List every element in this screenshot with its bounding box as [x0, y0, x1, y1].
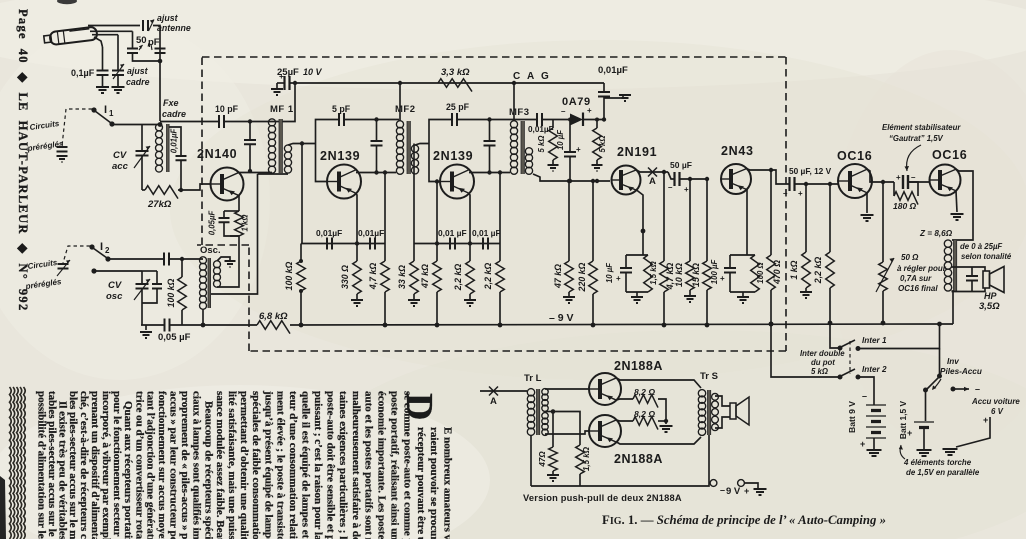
wire osc secondary bottom feedback	[217, 236, 239, 287]
resistor 470ohm	[769, 168, 773, 172]
svg-text:“Gautrat” 1,5V: “Gautrat” 1,5V	[889, 134, 944, 143]
svg-text:25µF: 25µF	[277, 67, 299, 78]
wire terminal to ground	[744, 483, 758, 488]
wire 2N139 collector to MF2	[356, 172, 396, 174]
electrolytic 100uF emitter bypass	[730, 254, 755, 256]
trimmer 50pF left	[132, 31, 134, 48]
svg-text:0,1µF: 0,1µF	[71, 68, 95, 78]
wire MF1 supply drop	[273, 83, 295, 122]
wire osc secondary top to ground	[217, 257, 230, 261]
resistor 47k bias	[568, 181, 570, 261]
transistor 2N140	[211, 168, 244, 201]
ground	[660, 426, 673, 432]
svg-text:malheureusement satisfaire à d: malheureusement satisfaire à des cer	[350, 391, 362, 539]
terminal circles 9V	[710, 480, 717, 487]
ground	[547, 475, 559, 481]
svg-text:OC16: OC16	[932, 148, 967, 162]
svg-text:+: +	[616, 274, 621, 283]
svg-text:trice ou d’un convertisseur ro: trice ou d’un convertisseur rotatif. Il	[133, 391, 145, 539]
resistor 2,2k oc	[828, 182, 832, 186]
svg-text:E nombreux amateurs voudraient: E nombreux amateurs voudraient pou	[442, 427, 454, 539]
ground	[592, 165, 603, 171]
svg-text:Beaucoup de récepteurs spéciau: Beaucoup de récepteurs spéciaux	[202, 401, 214, 539]
transistor 2N188A bottom	[589, 415, 621, 447]
wire to 2N140 base	[178, 184, 211, 190]
svg-text:économie importante. Les poste: économie importante. Les postes auto	[376, 391, 388, 539]
svg-text:2N139: 2N139	[433, 149, 473, 163]
svg-text:50 Ω: 50 Ω	[901, 253, 919, 262]
svg-text:ciaux à lampes sont qualifiés: ciaux à lampes sont qualifiés impro	[191, 391, 203, 539]
svg-text:33 kΩ: 33 kΩ	[397, 265, 407, 289]
svg-text:100 kΩ: 100 kΩ	[284, 261, 294, 290]
loop antenna coil (cadre)	[156, 124, 163, 131]
wire TrS bottom to terminal	[708, 435, 710, 483]
resistor 8,2 bottom	[617, 420, 634, 421]
svg-text:Versіon push-pull de deux: Versіon push-pull de deux 2N188A	[523, 493, 682, 503]
svg-text:–: –	[668, 183, 673, 192]
wire MF3 secondary bottom to 2N191 base	[533, 174, 610, 181]
svg-text:1 kΩ: 1 kΩ	[241, 215, 250, 232]
wire MF3 top to detector	[513, 120, 515, 122]
wire top rail	[290, 82, 605, 84]
ground	[271, 89, 283, 95]
ground	[563, 297, 575, 303]
svg-text:du pot: du pot	[811, 358, 835, 367]
svg-text:Tr L: Tr L	[524, 373, 542, 384]
wire OC16 emitter to ground	[866, 193, 868, 213]
svg-text:+: +	[860, 439, 865, 449]
svg-text:de 1,5V en parallèle: de 1,5V en parallèle	[906, 468, 980, 477]
svg-text:–: –	[862, 391, 867, 401]
svg-text:470 Ω: 470 Ω	[772, 260, 782, 285]
oscillator transformer	[200, 257, 207, 264]
svg-text:permettant d’obtenir une quali: permettant d’obtenir une qualité satis	[238, 391, 250, 539]
wire osc primary bottom to rail	[202, 309, 204, 325]
ground	[619, 95, 631, 101]
svg-text:+: +	[744, 486, 749, 496]
resistor 1,5k bias pushpull	[553, 412, 580, 446]
capacitor 0,01uF a2	[370, 238, 375, 250]
resistor 100ohm emitter	[751, 255, 760, 292]
electrolytic 10uF emitter bypass	[626, 254, 648, 256]
svg-text:– 9 V: – 9 V	[549, 312, 574, 324]
svg-text:A: A	[490, 396, 497, 407]
svg-text:selon tonalité: selon tonalité	[961, 252, 1012, 261]
svg-text:accus » par leur constructeur: accus » par leur constructeur pour le	[167, 391, 179, 539]
svg-text:I: I	[100, 241, 103, 253]
svg-text:5 kΩ: 5 kΩ	[598, 136, 607, 153]
wire TrS to speaker	[715, 396, 730, 406]
svg-text:quelle il est équipé de lampes: quelle il est équipé de lampes et d’un	[299, 391, 311, 539]
transistor 2N139 first	[327, 165, 361, 199]
svg-text:I: I	[104, 104, 107, 116]
series capacitor on osc line	[164, 253, 169, 266]
preset trimmer 2	[58, 264, 69, 269]
wire 2N43 emitter	[746, 190, 748, 256]
wire pushpull rail	[531, 483, 709, 486]
resistor 1,5k emitter	[644, 255, 653, 292]
svg-text:Inter 2: Inter 2	[862, 365, 887, 374]
dashed switch linkage	[849, 341, 851, 374]
ground	[943, 449, 958, 455]
svg-text:2N188A: 2N188A	[614, 452, 663, 466]
svg-text:4 éléments torche: 4 éléments torche	[903, 458, 972, 467]
svg-text:teur d’une consommation relati: teur d’une consommation relativement	[287, 391, 299, 539]
switch I1	[91, 107, 96, 112]
electrolytic 50uF coupling	[668, 172, 674, 179]
resistor 6,8k on rail	[257, 321, 290, 334]
switch Inter 1	[838, 346, 843, 351]
svg-text:pF: pF	[148, 37, 160, 48]
svg-text:ment élevée ; le poste à trans: ment élevée ; le poste à transistors éta…	[275, 391, 287, 539]
svg-text:27kΩ: 27kΩ	[147, 199, 172, 210]
electrolytic 25uF	[277, 82, 284, 84]
svg-text:osc: osc	[106, 291, 123, 302]
svg-text:8,2 Ω: 8,2 Ω	[634, 387, 655, 397]
svg-text:+: +	[983, 415, 988, 425]
preset trimmer	[57, 147, 68, 152]
svg-text:15 kΩ: 15 kΩ	[691, 263, 701, 287]
svg-text:de 0 à 25µF: de 0 à 25µF	[960, 242, 1002, 251]
wire accu to ground	[956, 417, 990, 447]
svg-text:180 Ω: 180 Ω	[893, 201, 917, 211]
svg-text:MF2: MF2	[395, 104, 416, 115]
svg-text:spéciales de faible consommati: spéciales de faible consommation per	[250, 391, 262, 539]
capacitor shunt second IF	[487, 117, 491, 121]
resistor 330ohm	[355, 241, 359, 245]
svg-text:10 pF: 10 pF	[215, 104, 239, 114]
svg-text:Z = 8,6Ω: Z = 8,6Ω	[919, 229, 953, 238]
svg-text:2N139: 2N139	[320, 149, 360, 163]
wire emitter network	[238, 196, 240, 212]
wire cadre bottom node	[142, 189, 145, 191]
switch I2	[89, 244, 94, 249]
transistor 2N191	[612, 166, 641, 195]
wire collector top to TrS	[617, 378, 702, 388]
resistor 2,2k b2	[499, 173, 501, 244]
svg-text:à régler pour: à régler pour	[897, 264, 947, 273]
svg-text:sance modulée assez faible. Be: sance modulée assez faible. Beaucoup	[214, 391, 226, 539]
wire collector node	[248, 119, 252, 123]
svg-text:0,01 µF: 0,01 µF	[472, 228, 501, 238]
transistor 2N188A top	[589, 373, 621, 405]
svg-text:acc: acc	[112, 161, 129, 172]
svg-text:Elément stabilisateur: Elément stabilisateur	[882, 123, 961, 132]
node X A input pushpull	[480, 390, 527, 392]
svg-text:2N191: 2N191	[617, 145, 657, 159]
trimmer ajust antenne	[143, 20, 148, 31]
svg-text:0,01µF: 0,01µF	[316, 228, 342, 238]
svg-text:47 kΩ: 47 kΩ	[420, 264, 430, 289]
svg-text:10 µF: 10 µF	[605, 263, 614, 283]
svg-text:Inter 1: Inter 1	[862, 336, 887, 345]
capacitor 10pF	[160, 121, 218, 123]
svg-text:1: 1	[109, 109, 114, 118]
transistor OC16 second	[930, 165, 961, 196]
svg-text:proprement de « piles-accus »: proprement de « piles-accus » par leur	[179, 391, 191, 539]
svg-text:lité satisfaisante, mais une p: lité satisfaisante, mais une puissance	[226, 391, 238, 539]
svg-text:0,01 µF: 0,01 µF	[438, 228, 467, 238]
svg-text:tant l’adjonction d’une généra: tant l’adjonction d’une génératrice ou	[145, 391, 157, 539]
ground	[737, 297, 749, 303]
capacitor shunt first IF	[374, 117, 378, 121]
wire rail to inter1	[830, 323, 838, 348]
ground	[684, 296, 696, 302]
svg-text:Inv: Inv	[947, 357, 959, 366]
svg-text:1,5 kΩ: 1,5 kΩ	[649, 261, 658, 284]
resistor 10k bias	[688, 177, 692, 181]
svg-text:0,01µF: 0,01µF	[358, 228, 384, 238]
capacitor 0,01uF b1	[450, 238, 455, 250]
trimmer ajust cadre	[117, 35, 119, 70]
wire speaker bottom	[952, 288, 986, 292]
svg-text:cadre: cadre	[162, 109, 186, 119]
svg-text:jusqu’à présent équipé de lamp: jusqu’à présent équipé de lampes sé	[262, 390, 274, 539]
wire TrL sec center tap	[545, 411, 553, 413]
svg-text:A: A	[649, 176, 656, 187]
wire collector bottom to TrS	[617, 437, 702, 444]
svg-text:possibilité d’alimentation sur: possibilité d’alimentation sur les bat	[35, 391, 47, 539]
resistor 2,2k b	[468, 241, 472, 245]
svg-text:+: +	[576, 145, 581, 154]
resistor 47k stage B	[435, 241, 439, 245]
svg-text:2,2 kΩ: 2,2 kΩ	[483, 263, 493, 291]
trimmer parallel CV osc	[156, 271, 158, 283]
capacitor 0,01uF on cadre tap	[169, 127, 181, 155]
svg-text:–: –	[911, 173, 916, 182]
svg-text:+: +	[720, 274, 725, 283]
svg-text:9 V: 9 V	[726, 486, 741, 497]
output transformer Z=8,6	[944, 240, 951, 247]
ground	[225, 261, 236, 267]
svg-text:+: +	[896, 173, 901, 182]
arrow to stabilizer	[907, 145, 921, 171]
rheostat 50ohm	[881, 180, 885, 184]
svg-text:50 µF, 12 V: 50 µF, 12 V	[789, 166, 832, 176]
ground	[861, 215, 874, 221]
svg-text:MF3: MF3	[509, 107, 530, 118]
svg-text:10 V: 10 V	[303, 67, 323, 77]
accu contact	[951, 387, 956, 392]
wire OC16 collector	[867, 169, 894, 182]
svg-text:fonctionnement sur accus moyen: fonctionnement sur accus moyennant l	[156, 391, 168, 539]
diode OA79	[570, 114, 583, 126]
svg-text:5 kΩ: 5 kΩ	[537, 136, 546, 153]
wire transformer bottom to rail	[952, 291, 954, 324]
inverter piles-accu pole	[939, 349, 941, 376]
svg-text:raient pouvoir se procurer un: raient pouvoir se procurer un récepteu	[428, 427, 440, 539]
wire 2N43 collector	[747, 169, 772, 171]
ground	[800, 292, 812, 298]
transistor 2N43	[721, 164, 751, 194]
ferrite rod antenna	[43, 27, 97, 46]
ground	[951, 214, 964, 220]
svg-text:Fxe: Fxe	[163, 98, 179, 108]
svg-text:Inter double: Inter double	[800, 349, 845, 358]
svg-text:2N188A: 2N188A	[614, 359, 663, 373]
wire bias line B	[414, 243, 500, 245]
svg-text:ajust: ajust	[157, 13, 179, 23]
wire 2N139b collector to MF3	[469, 172, 510, 174]
dashed enclosure of main receiver	[202, 56, 786, 58]
wire negative rail	[141, 324, 164, 326]
svg-text:+: +	[684, 185, 689, 194]
ground	[548, 165, 559, 171]
resistor 47ohm bias pushpull	[552, 412, 554, 448]
svg-text:5 kΩ: 5 kΩ	[811, 367, 828, 376]
svg-text:+: +	[587, 106, 592, 115]
margin text Page 40 LE HAUT-PARLEUR N 992	[16, 9, 30, 312]
wire MF2 secondary to 2N139b base	[429, 144, 440, 182]
resistor 100k	[301, 144, 303, 244]
wire OC16b collector to transformer	[952, 169, 973, 240]
svg-text:CV: CV	[108, 280, 122, 291]
svg-text:HP: HP	[984, 291, 997, 301]
switch Inter 2	[841, 369, 855, 376]
resistor 8,2 top	[617, 399, 634, 400]
wire TrL primary bottom to rail	[530, 435, 532, 486]
svg-text:47 kΩ: 47 kΩ	[553, 264, 563, 289]
resistor 1k base	[804, 182, 808, 186]
svg-text:récepteur pouvant être utilisé: récepteur pouvant être utilisé comme	[415, 427, 427, 539]
arrow inv	[933, 379, 941, 389]
transistor 2N139 second	[440, 165, 474, 199]
svg-text:2,2 kΩ: 2,2 kΩ	[453, 264, 463, 292]
stabilizer element 1,5V	[903, 175, 908, 189]
svg-text:FIG. 1. — Schéma de principe d: FIG. 1. — Schéma de principe de l’ « Aut…	[602, 513, 886, 527]
wire inter2 to battery	[858, 377, 874, 400]
resistor 5k detector left	[552, 120, 554, 129]
ground	[464, 300, 476, 306]
svg-text:–: –	[783, 189, 788, 198]
wire MF1 secondary bottom	[258, 173, 289, 175]
svg-text:Batt 1,5 V: Batt 1,5 V	[898, 401, 908, 440]
svg-text:6 V: 6 V	[991, 407, 1004, 416]
variable capacitor CV osc	[141, 271, 143, 283]
wire antenna taps	[88, 25, 140, 27]
svg-text:puissant ; c’est la raison pou: puissant ; c’est la raison pour laquelle	[312, 391, 324, 539]
svg-text:0,01µF: 0,01µF	[170, 129, 179, 154]
svg-text:50: 50	[136, 35, 147, 46]
ground	[351, 300, 363, 306]
wire to cadre	[153, 26, 160, 122]
switch I2 second contact	[91, 268, 96, 273]
wire collector to MF1	[239, 172, 273, 174]
wire speaker top	[952, 267, 986, 271]
svg-text:Accu voiture: Accu voiture	[971, 397, 1020, 406]
svg-text:auto et les postes portatifs s: auto et les postes portatifs sont malheu	[363, 391, 375, 539]
resistor 27k	[145, 186, 178, 199]
svg-text:2: 2	[105, 246, 110, 255]
svg-text:2N43: 2N43	[721, 144, 754, 158]
svg-text:poste-auto doit être sensible: poste-auto doit être sensible et puiss	[324, 391, 336, 539]
ground	[917, 450, 932, 456]
svg-text:2N140: 2N140	[197, 147, 237, 161]
wire bias line A	[301, 243, 385, 245]
ground	[112, 87, 125, 93]
wire osc primary tap	[211, 174, 258, 294]
svg-text:0,05 µF: 0,05 µF	[158, 332, 191, 343]
svg-text:3,5Ω: 3,5Ω	[979, 301, 1000, 312]
svg-text:0,05µF: 0,05µF	[208, 211, 217, 236]
svg-text:antenne: antenne	[157, 23, 191, 33]
svg-text:MF 1: MF 1	[270, 104, 294, 115]
resistor 5k detector right	[596, 120, 598, 129]
capacitor 25pF neutralization	[429, 120, 451, 144]
svg-text:2,2 kΩ: 2,2 kΩ	[813, 257, 823, 285]
wire TrL sec top to base	[545, 388, 589, 390]
wire MF2 secondary top	[415, 144, 429, 146]
resistor 4,7k collector load 2N191	[662, 170, 666, 174]
resistor 33k	[413, 144, 415, 244]
capacitor 5pF neutralization	[316, 120, 339, 144]
ground	[96, 87, 109, 93]
electrolytic 50uF output coupling	[771, 170, 789, 184]
svg-text:4,7 kΩ: 4,7 kΩ	[368, 263, 378, 291]
svg-text:6,8 kΩ: 6,8 kΩ	[259, 311, 288, 322]
wire MF2 supply drop	[399, 83, 401, 121]
node X A takeoff	[648, 168, 657, 177]
transistor OC16 first	[838, 164, 872, 198]
svg-text:0,01µF: 0,01µF	[598, 65, 628, 76]
capacitor 0,01uF a1	[327, 238, 332, 250]
ground	[631, 297, 643, 303]
svg-text:+: +	[798, 189, 803, 198]
svg-text:–: –	[720, 485, 725, 495]
wire 2N139b emitter	[469, 194, 470, 244]
ground	[754, 489, 767, 495]
resistor 4,7k stage A	[384, 173, 386, 244]
wire TrL sec bottom to base2	[545, 431, 589, 434]
resistor 220k bias	[592, 181, 594, 261]
tone capacitor 0 to 25uF	[971, 267, 973, 275]
loudspeaker pushpull	[730, 403, 736, 419]
wire rail drop to inter	[769, 322, 774, 327]
svg-text:Tr S: Tr S	[700, 371, 718, 382]
svg-text:poste portatif, réalisant ains: poste portatif, réalisant ainsi une écon…	[389, 391, 401, 539]
svg-text:Pіles-Accu: Pіles-Accu	[940, 367, 982, 376]
svg-text:100 µF: 100 µF	[710, 260, 719, 285]
capacitor 0,01uF AGC decoupling	[603, 83, 605, 91]
wire MF3 supply drop	[513, 83, 515, 121]
dashed link preset	[63, 246, 90, 263]
svg-text:1,5 kΩ: 1,5 kΩ	[582, 446, 591, 471]
wire MF1 secondary top	[288, 144, 316, 146]
ground rail stub	[145, 325, 147, 330]
svg-text:47Ω: 47Ω	[538, 451, 547, 468]
svg-text:8,2 Ω: 8,2 Ω	[634, 409, 655, 419]
svg-text:3,3 kΩ: 3,3 kΩ	[441, 67, 470, 78]
capacitor 0,01uF b2	[483, 238, 488, 250]
svg-text:10 µF: 10 µF	[556, 130, 565, 150]
svg-text:Batt 9 V: Batt 9 V	[847, 401, 857, 433]
resistor 180ohm parallel	[893, 182, 895, 196]
resistor 100k osc	[181, 259, 183, 277]
capacitor 0,1uF	[102, 47, 104, 70]
wire 2N139 emitter	[356, 194, 357, 244]
ornamental wavy rule	[10, 387, 12, 539]
svg-text:ajust: ajust	[127, 66, 149, 76]
svg-text:25 pF: 25 pF	[446, 102, 470, 112]
capacitor 0,05uF rail	[165, 319, 170, 332]
dashed link to preset circuits	[62, 109, 92, 146]
capacitor neutralization 2N140	[249, 122, 251, 140]
svg-text:5 pF: 5 pF	[332, 104, 351, 114]
variable capacitor CV acc	[141, 125, 143, 151]
svg-text:–: –	[561, 107, 566, 116]
resistor 15k bias	[705, 177, 709, 181]
loudspeaker HP	[983, 271, 990, 288]
